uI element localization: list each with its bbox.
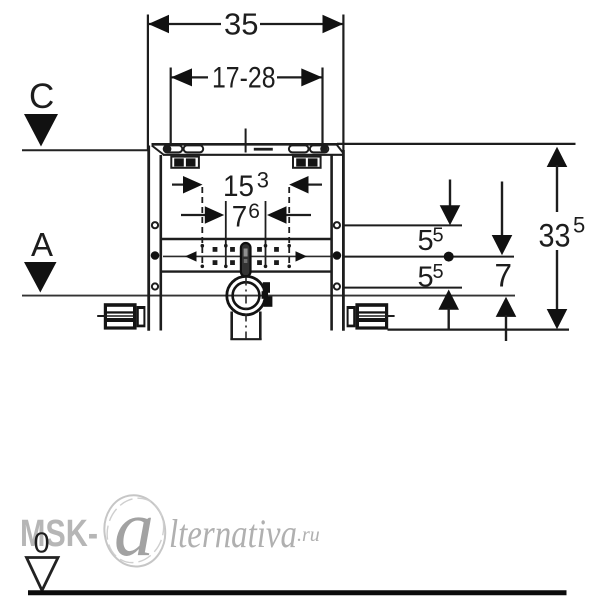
datum triangle 0 (open) bbox=[27, 558, 59, 591]
crossbar band top line bbox=[162, 238, 332, 240]
dimension 7.6 leader right bbox=[287, 214, 312, 216]
floor line (thick) bbox=[28, 590, 567, 595]
svg-text:5: 5 bbox=[418, 225, 434, 257]
rail hole left bottom bbox=[152, 283, 158, 289]
dimension 15.3 arrow left bbox=[183, 176, 203, 194]
drain pipe bottom edge bbox=[230, 338, 261, 340]
clamp screw bbox=[262, 282, 273, 307]
right dim line at hole 1 (y=225) bbox=[344, 224, 462, 226]
drain pipe clamp inner circle bbox=[233, 282, 260, 309]
hanger slot plate right: oval slots bbox=[289, 145, 309, 152]
rail hole right top bbox=[334, 222, 340, 228]
dimension 15.3 leader right bbox=[309, 184, 323, 186]
foot right center dash bbox=[359, 315, 385, 317]
right dim line at hole 2 (y=256.6) bbox=[344, 256, 514, 258]
dimension 15.3 leader left bbox=[172, 184, 184, 186]
svg-text:lternativa: lternativa bbox=[169, 511, 297, 556]
frame centerline tick bbox=[245, 129, 247, 153]
pipe vertical centerline bbox=[245, 278, 247, 339]
dimension 17-28 extension line left bbox=[170, 68, 172, 147]
dimension 17-28 arrow right bbox=[301, 68, 322, 86]
band adjust arrow right bbox=[296, 251, 308, 261]
svg-text:5: 5 bbox=[433, 261, 444, 283]
band horizontal centerline bbox=[163, 255, 331, 257]
svg-text:7: 7 bbox=[232, 201, 248, 234]
foot bracket left body bbox=[104, 303, 137, 329]
svg-text:5: 5 bbox=[433, 225, 444, 247]
dim 7 down arrow bbox=[501, 182, 503, 238]
dimension 7.6 leader left bbox=[181, 214, 205, 216]
dimension 35 arrow right bbox=[323, 15, 344, 33]
datum triangle A bbox=[24, 262, 57, 293]
svg-text:0: 0 bbox=[34, 528, 50, 560]
dimension 15.3 ext line right (dash-dot) bbox=[288, 187, 290, 268]
top plate center slot dash bbox=[254, 148, 273, 151]
svg-text:.ru: .ru bbox=[297, 524, 320, 546]
datum line C bbox=[22, 149, 150, 151]
frame left rail inner bbox=[160, 155, 163, 331]
floor reference line right bbox=[388, 329, 570, 331]
dimension 15.3 arrow right bbox=[289, 176, 308, 194]
dimension 35 line bbox=[149, 23, 222, 25]
svg-text:15: 15 bbox=[223, 170, 254, 203]
screw box left bbox=[171, 157, 199, 168]
frame top rail front edge bbox=[163, 154, 343, 156]
rail hole right bottom bbox=[334, 283, 340, 289]
drain pipe walls bbox=[230, 312, 233, 341]
svg-text:6: 6 bbox=[248, 200, 260, 223]
pipe axis line A (horizontal centerline) bbox=[22, 295, 515, 297]
rail hole right middle (filled) bbox=[333, 251, 342, 260]
dimension 7.6 tick left bbox=[225, 201, 227, 268]
drain pipe clamp outer circle bbox=[227, 276, 265, 314]
foot bracket right body bbox=[355, 303, 388, 329]
svg-text:7: 7 bbox=[495, 258, 513, 294]
frame top rail left chamfer bbox=[152, 146, 164, 156]
svg-text:C: C bbox=[29, 77, 54, 116]
svg-text:A: A bbox=[31, 226, 53, 263]
screw box right bbox=[293, 157, 321, 168]
frame right rail outer bbox=[342, 150, 345, 331]
svg-text:MSK-: MSK- bbox=[20, 513, 98, 555]
svg-text:3: 3 bbox=[257, 168, 269, 193]
dimension 7.6 arrow left bbox=[205, 206, 224, 224]
svg-text:33: 33 bbox=[539, 218, 571, 254]
frame right rail inner bbox=[330, 155, 333, 331]
frame top rail right chamfer bbox=[337, 145, 344, 154]
dimension 35 extension line right bbox=[342, 15, 344, 151]
threaded rod slot bbox=[241, 243, 251, 277]
chain dimension dot bbox=[444, 252, 454, 262]
hanger slot plate left: oval slots bbox=[164, 145, 183, 152]
svg-text:5: 5 bbox=[573, 213, 585, 238]
svg-text:17-28: 17-28 bbox=[212, 62, 276, 95]
rail hole left middle (filled) bbox=[151, 251, 160, 260]
foot left center dash bbox=[97, 315, 107, 317]
band dash line end dots bbox=[201, 244, 292, 268]
hanger bolt right bbox=[320, 145, 327, 152]
foot bracket left connector bbox=[137, 306, 146, 327]
foot bracket right connector bbox=[347, 306, 356, 327]
watermark stamp circle bbox=[100, 491, 170, 570]
dim 7 up arrow bbox=[496, 297, 517, 317]
svg-text:35: 35 bbox=[224, 7, 258, 42]
dim 5.5 lower: up arrow bbox=[438, 290, 459, 310]
dim 5.5 upper: down arrow bbox=[449, 180, 451, 208]
rail hole left top bbox=[152, 222, 158, 228]
dimension 7.6 tick right bbox=[265, 201, 267, 268]
svg-text:5: 5 bbox=[418, 261, 434, 293]
dimension 17-28 arrow left bbox=[171, 68, 192, 86]
dimension 7.6 arrow right bbox=[267, 206, 287, 224]
band bolt hole dots bbox=[213, 247, 279, 265]
right dim line at hole 3 (y=287.6) bbox=[344, 287, 462, 289]
hanger bolt left bbox=[164, 145, 171, 152]
dimension 35 arrow left bbox=[148, 15, 169, 33]
datum triangle C bbox=[24, 114, 58, 147]
frame top rail back edge + extension to 33.5 dim bbox=[152, 143, 338, 146]
dimension 15.3 ext line left (dash-dot) bbox=[201, 187, 203, 268]
svg-text:a: a bbox=[114, 485, 154, 573]
dimension 35 extension line left bbox=[147, 15, 149, 151]
frame left rail outer bbox=[147, 146, 150, 331]
dimension 17-28 extension line right bbox=[321, 68, 323, 150]
band adjust arrow left bbox=[185, 251, 197, 261]
dimension 17-28 line bbox=[172, 76, 209, 78]
crossbar band bottom line bbox=[162, 270, 332, 272]
dim 33.5 line with arrows bbox=[547, 147, 568, 167]
